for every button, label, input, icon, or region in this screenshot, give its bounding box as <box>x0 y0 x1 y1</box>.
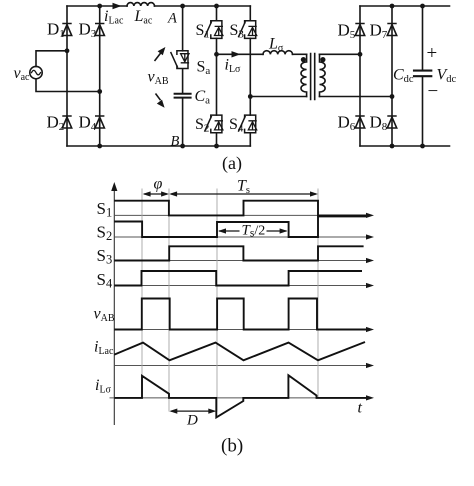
node D4 bottom junction <box>97 144 102 149</box>
wire leg D7 D8 <box>391 6 393 146</box>
svg-text:D: D <box>186 413 198 429</box>
transformer core <box>311 54 315 100</box>
gridline phi end <box>168 189 170 412</box>
node bridge mid left junction <box>214 52 219 57</box>
wire bottom rail right <box>360 145 450 147</box>
capacitor Ca <box>175 94 191 98</box>
current arrow iLsigma <box>232 51 241 57</box>
node D8 bottom junction <box>390 144 395 149</box>
axis iLsigma <box>110 397 368 399</box>
diode D8 <box>387 116 396 128</box>
wire Lsigma to transformer <box>293 53 307 55</box>
switch S3 <box>238 21 256 39</box>
axis S3 <box>114 260 367 262</box>
waveform S2 <box>114 216 366 237</box>
node bridge mid right junction <box>248 94 253 99</box>
node D7 top junction <box>390 4 395 9</box>
svg-text:(a): (a) <box>222 153 242 174</box>
svg-text:(b): (b) <box>221 436 243 457</box>
annotation D arrow <box>171 410 215 412</box>
node vac bottom junction <box>97 89 102 94</box>
switch S1 <box>205 21 224 39</box>
svg-text:φ: φ <box>154 176 163 193</box>
axis S1 <box>114 214 367 216</box>
wire leg D3 D4 <box>99 6 101 146</box>
wire primary bottom <box>250 96 306 98</box>
junction dots <box>65 4 425 149</box>
diode D6 <box>355 116 364 128</box>
inductor Lac <box>127 3 155 6</box>
wire leg S3 S4 <box>249 6 251 146</box>
gridline phi start <box>141 189 143 399</box>
switch Sa <box>171 51 190 69</box>
node S1 top junction <box>214 4 219 9</box>
transformer polarity dot secondary <box>320 57 325 62</box>
node Cdc top junction <box>420 4 425 9</box>
axis S4 <box>114 285 367 287</box>
vAB arrow down <box>156 94 165 108</box>
waveform iLsigma <box>114 375 366 417</box>
annotation Ts arrow <box>171 193 316 195</box>
transformer polarity dot primary <box>301 57 306 62</box>
diode D3 <box>95 24 104 36</box>
svg-text:+: + <box>427 43 438 64</box>
node S2 bottom junction <box>214 144 219 149</box>
switch S4 <box>238 115 256 133</box>
inductor Lsigma <box>263 51 293 55</box>
svg-text:−: − <box>428 81 439 102</box>
node D3 top junction <box>97 4 102 9</box>
switch S2 <box>205 115 224 133</box>
wire vac top <box>36 51 67 67</box>
source vac <box>30 66 42 78</box>
node B junction <box>180 144 185 149</box>
diode D4 <box>95 116 104 128</box>
wire iLsigma <box>217 53 264 55</box>
svg-text:Ts/2: Ts/2 <box>242 223 266 240</box>
node secondary top junction <box>358 52 363 57</box>
wire left leg D1 D2 <box>66 6 68 146</box>
gridline Ts half start <box>216 189 218 412</box>
node secondary bottom junction <box>390 94 395 99</box>
annotation Ts/2 arrow <box>219 230 287 232</box>
wire secondary top <box>320 53 361 55</box>
current arrow iLac <box>113 3 122 9</box>
svg-text:A: A <box>167 11 177 27</box>
wire leg A <box>182 6 184 146</box>
capacitor Cdc <box>414 71 431 77</box>
wire vac bottom <box>36 79 100 92</box>
node Cdc bottom junction <box>420 144 425 149</box>
waveform vAB <box>114 299 366 330</box>
gridline Ts end <box>317 189 319 399</box>
waveform S1 <box>114 201 366 216</box>
transformer primary <box>301 54 307 96</box>
wire top rail right <box>360 5 450 7</box>
wire top rail left <box>67 5 250 7</box>
wire bottom rail left <box>67 145 250 147</box>
node A junction <box>180 4 185 9</box>
wire leg D5 D6 <box>359 6 361 146</box>
svg-text:t: t <box>358 400 363 417</box>
diode D5 <box>355 24 364 36</box>
wire Cdc leg <box>422 6 424 146</box>
annotation phi arrow <box>144 193 167 195</box>
axis iLac <box>114 365 367 367</box>
svg-text:B: B <box>171 134 180 150</box>
vAB arrow up <box>155 47 166 61</box>
waveform S3 <box>114 246 363 260</box>
waveform iLac <box>114 342 365 360</box>
wire secondary bottom <box>320 96 393 98</box>
axis vAB <box>114 329 367 331</box>
transformer secondary <box>320 54 326 96</box>
axis vertical <box>113 189 115 425</box>
waveform S4 <box>114 271 362 286</box>
diode D2 <box>62 116 71 128</box>
diode D1 <box>62 24 71 36</box>
wire leg S1 S2 <box>216 6 218 146</box>
node vac top junction <box>65 48 70 53</box>
axis S2 <box>114 236 367 238</box>
diode D7 <box>387 24 396 36</box>
